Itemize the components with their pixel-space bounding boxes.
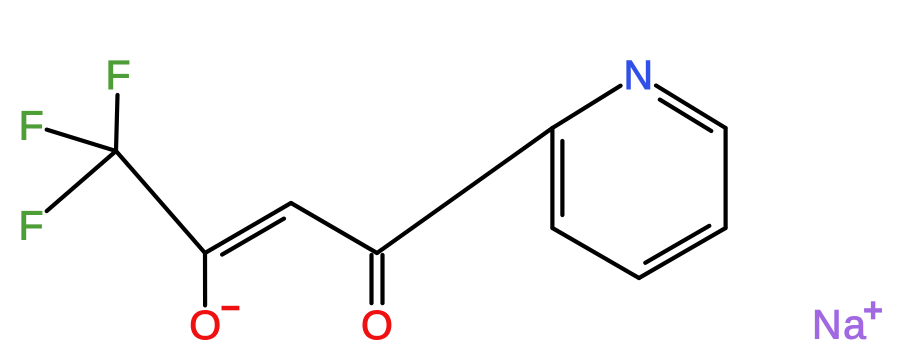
double bond C=C inner line bbox=[222, 219, 284, 255]
ring bond C5-C6 bbox=[723, 128, 727, 228]
ring bond C2-N1 bbox=[552, 86, 620, 128]
svg-text:N: N bbox=[623, 52, 653, 98]
ring double bond C6=N1 main bbox=[656, 86, 726, 129]
ring double bond C2=C3 inner bbox=[560, 141, 564, 215]
ring double bond C4=C5 main bbox=[639, 228, 726, 278]
bond CF3 carbon - enolate carbon bbox=[116, 151, 205, 253]
bond C(=O)-ring C2 bbox=[377, 128, 552, 253]
svg-text:O: O bbox=[361, 302, 393, 348]
svg-text:F: F bbox=[18, 202, 43, 248]
C=O double bond right line bbox=[380, 255, 384, 303]
minus charge of O- bbox=[222, 306, 240, 311]
svg-text:F: F bbox=[105, 52, 130, 98]
bond C-O(-) single bbox=[203, 253, 207, 305]
ring double bond C4=C5 inner bbox=[645, 226, 709, 263]
C=O double bond left line bbox=[369, 255, 373, 303]
double bond C=C main line bbox=[205, 203, 291, 253]
bond CH-C(=O) bbox=[291, 203, 377, 253]
svg-text:F: F bbox=[19, 103, 44, 149]
ring double bond C6=N1 inner bbox=[660, 100, 712, 131]
plus charge of Na+ bbox=[864, 301, 882, 319]
ring double bond C2=C3 main bbox=[550, 128, 554, 228]
bond C4-F (left F) bbox=[47, 130, 116, 151]
bond C4-F (bottom F) bbox=[47, 151, 116, 211]
svg-text:Na: Na bbox=[812, 302, 867, 348]
bond C4-F (top F) bbox=[116, 95, 118, 151]
svg-text:O: O bbox=[189, 302, 221, 348]
ring bond C3-C4 bbox=[552, 228, 639, 278]
